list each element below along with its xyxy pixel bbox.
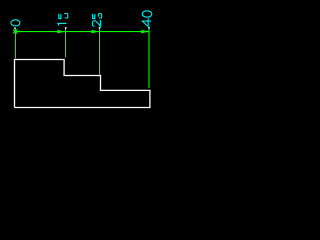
label 15 digit 1 <box>58 23 66 25</box>
extension line at 0 <box>14 29 16 59</box>
extension line at 40 <box>148 29 150 89</box>
extension line at 15 <box>65 29 67 58</box>
origin marker X at 0 <box>13 29 17 33</box>
label 0 (rotated digit zero) <box>11 20 20 26</box>
arrowhead at 15 <box>57 30 65 34</box>
grip dot at 15 <box>65 27 67 29</box>
label 40 digit 0 <box>142 11 152 17</box>
extension line at 25 <box>99 29 101 75</box>
grip dot at 0 <box>14 27 16 29</box>
label 25 digit 2 <box>92 20 100 26</box>
grip dot at 25 <box>99 27 101 29</box>
label 25 digit 5 <box>93 14 102 19</box>
grip dot at 40 <box>148 27 150 29</box>
part outline (stepped profile) <box>15 60 150 108</box>
label 40 digit 4 <box>142 19 150 27</box>
dimension line <box>15 31 150 33</box>
arrowhead at 40 <box>141 30 149 34</box>
arrowhead at 25 <box>92 30 100 34</box>
label 15 digit 5 <box>59 14 68 19</box>
